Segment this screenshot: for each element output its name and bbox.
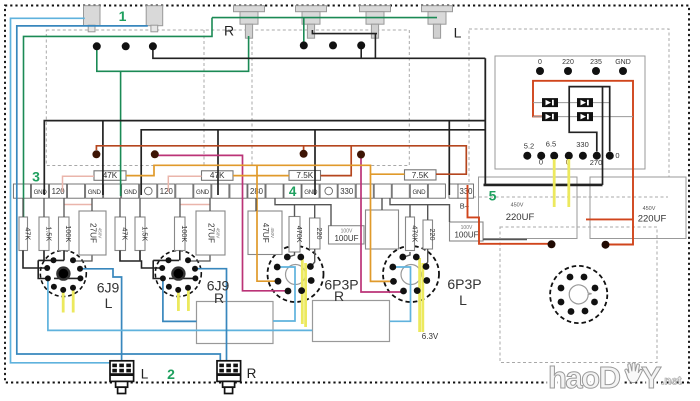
- svg-text:450V: 450V: [270, 228, 275, 239]
- terminal 0: [536, 67, 544, 75]
- svg-text:220: 220: [315, 228, 324, 240]
- wire green R-input to pot lug: [97, 36, 249, 71]
- svg-text:235: 235: [590, 59, 602, 66]
- svg-text:6.5: 6.5: [546, 140, 556, 149]
- PSU dashed box bottom overlay: [479, 196, 668, 198]
- wire blue 6J9R to OPT-R: [163, 279, 197, 321]
- wire yellow heater: [418, 258, 421, 332]
- capacitor 27UF 450V (R): [196, 211, 225, 255]
- svg-text:47UF: 47UF: [261, 223, 270, 243]
- svg-text:100K: 100K: [64, 225, 73, 242]
- chassis lug: [93, 42, 101, 50]
- svg-text:2: 2: [167, 366, 175, 382]
- capacitor C8 220UF box: [590, 177, 686, 239]
- resistor 7.5K (R ch): [289, 171, 321, 181]
- svg-text:470K: 470K: [295, 226, 304, 243]
- wire gray 100UF-L right: [483, 239, 527, 241]
- wire yellow 6.3V a: [553, 159, 556, 207]
- svg-text:450V: 450V: [97, 228, 102, 239]
- svg-text:GND: GND: [196, 189, 210, 196]
- chassis lug: [300, 41, 308, 49]
- output transformer OPT-R box: [197, 302, 274, 344]
- svg-text:27UF: 27UF: [88, 223, 97, 243]
- tube socket 6J9 R base: [155, 251, 201, 297]
- pin: [192, 275, 198, 281]
- lug B+ b: [151, 150, 159, 158]
- speaker terminal R: [217, 361, 241, 382]
- resistor 47K 6J9-L grid: [19, 217, 28, 251]
- wire jack ground drop: [374, 34, 376, 59]
- pin: [413, 254, 420, 261]
- pin: [389, 264, 396, 271]
- svg-text:3: 3: [32, 169, 40, 185]
- svg-text:GND: GND: [304, 189, 318, 196]
- preamp dashed divider 1: [203, 30, 205, 166]
- wire socket jumper 2: [38, 260, 47, 278]
- lug cap C7: [548, 240, 556, 248]
- svg-text:330: 330: [459, 187, 473, 196]
- wire dot ground drop: [360, 47, 362, 58]
- pin: [44, 265, 50, 271]
- pin: [70, 285, 76, 291]
- tube socket 6P3P R base: [268, 246, 324, 302]
- diode D2: [578, 99, 593, 107]
- pin: [297, 254, 304, 261]
- svg-text:120: 120: [160, 187, 174, 196]
- stub: [179, 198, 181, 217]
- wire cyan 6P3P-R to OPT-R: [273, 267, 295, 321]
- wire socket jumper 3: [54, 277, 80, 279]
- wire yellow heater: [187, 289, 190, 311]
- pin: [51, 284, 57, 290]
- wire red cap tap: [586, 218, 633, 220]
- resistor 100K 6J9-R: [175, 217, 186, 251]
- wire yellow 6.3V b: [567, 159, 570, 207]
- terminal lug: [537, 152, 545, 160]
- wire 1.5K stub: [43, 251, 45, 261]
- resistor 220 6P3P-R cathode: [310, 218, 321, 249]
- RCA jack R2: [296, 6, 327, 12]
- svg-text:GND: GND: [88, 189, 102, 196]
- resistor 7.5K (L ch): [405, 170, 437, 180]
- pin: [423, 263, 430, 270]
- tube socket rectifier base: [550, 266, 607, 323]
- rectifier socket key: [569, 285, 591, 304]
- terminal strip tag board: [13, 184, 30, 198]
- pin: [284, 254, 291, 261]
- pin: [275, 278, 282, 285]
- svg-text:L: L: [459, 292, 467, 308]
- pin: [414, 287, 421, 294]
- PSU dashed box: [469, 29, 669, 197]
- resistor 1.5K 6J9-L cathode: [39, 217, 49, 251]
- svg-text:100K: 100K: [180, 225, 189, 242]
- pin: [185, 285, 191, 291]
- pin: [567, 274, 574, 281]
- stub: [209, 198, 211, 211]
- wire socket jumper R1: [153, 259, 179, 261]
- pin: [423, 277, 430, 284]
- tube socket 6J9 L base: [40, 251, 86, 297]
- resistor 47K 6J9-R grid: [115, 217, 126, 251]
- wire ground down to PSU: [484, 58, 486, 184]
- wire yellow heater: [177, 291, 180, 311]
- power transformer T1 box: [495, 56, 645, 169]
- svg-text:5: 5: [489, 188, 497, 204]
- lug B+ d: [357, 151, 365, 159]
- wire socket jumper R2: [153, 260, 162, 278]
- wire gray strip to 100UF L: [390, 198, 450, 222]
- svg-text:220: 220: [562, 59, 574, 66]
- center spigot 6J9 R: [171, 266, 185, 280]
- pin: [60, 287, 66, 293]
- pin: [192, 266, 198, 272]
- wire rail2 drop GND: [314, 130, 316, 195]
- wire green to 47K grid L: [24, 18, 213, 217]
- socket key 6P3P L: [401, 265, 421, 285]
- wire yellow heater: [72, 289, 75, 313]
- stub: [22, 198, 24, 217]
- pin: [159, 265, 165, 271]
- wire gray 470K top L: [409, 205, 411, 217]
- wire salmon strip to 47K-b: [168, 176, 201, 192]
- terminal 235: [592, 67, 600, 75]
- terminal lug: [523, 152, 531, 160]
- watermark haoDIY.net: [548, 360, 682, 395]
- pin: [592, 285, 599, 292]
- wire rail1 drop GND: [102, 121, 104, 195]
- terminal lug: [550, 152, 558, 160]
- wire jack R2-L1 ground tie: [312, 30, 377, 34]
- svg-text:47K: 47K: [24, 227, 33, 240]
- svg-text:47K: 47K: [121, 227, 130, 240]
- loose lug cell: [449, 184, 458, 198]
- terminal lug: [593, 152, 601, 160]
- rectifier dashed box overlay: [500, 227, 657, 363]
- output transformer OPT-L box: [313, 301, 390, 342]
- wire 470K to pin L: [404, 252, 410, 257]
- resistor 1.5K 6J9-R cathode: [135, 217, 145, 251]
- watermark hand icon: [625, 363, 642, 383]
- svg-text:330: 330: [340, 187, 354, 196]
- wire amber to 6P3P-R: [257, 165, 277, 281]
- svg-text:.net: .net: [661, 376, 682, 388]
- wire 27UF stub: [74, 256, 93, 262]
- chassis lug: [329, 41, 337, 49]
- wire rail1 drop lug: [448, 121, 450, 195]
- wire rectifier output: [569, 87, 610, 152]
- wire magenta grid R: [155, 155, 287, 290]
- wire rectifier to 270: [569, 103, 597, 152]
- strip eyelet cell 8: [145, 187, 153, 195]
- svg-text:330: 330: [576, 140, 589, 149]
- RCA jack L1: [360, 6, 391, 12]
- wire salmon strip to 47K-a: [63, 176, 95, 192]
- capacitor C7 220UF box: [479, 177, 578, 239]
- wire diode row2: [533, 116, 633, 118]
- svg-text:100UF: 100UF: [334, 234, 358, 243]
- wire yellow heater: [62, 291, 65, 313]
- pin: [308, 277, 315, 284]
- svg-text:1.5K: 1.5K: [140, 226, 149, 241]
- resistor 220 6P3P-L cathode: [423, 220, 433, 249]
- capacitor 100UF 100V (R): [329, 226, 365, 244]
- wire 100K stub: [63, 251, 65, 261]
- pin: [45, 275, 51, 281]
- volume pot lug block B: [146, 6, 163, 26]
- pin: [285, 288, 292, 295]
- volume pot lug block A: [84, 6, 101, 26]
- svg-text:L: L: [105, 295, 113, 311]
- wire gray strip to 100UF R: [275, 198, 331, 226]
- capacitor 27UF 450V (L): [79, 211, 106, 255]
- svg-text:470K: 470K: [410, 225, 419, 242]
- wire 27UF stub R: [189, 256, 211, 262]
- wire cyan cathode bus: [48, 279, 312, 330]
- capacitor 47UF 450V (L) unlabeled: [366, 210, 399, 249]
- svg-text:27UF: 27UF: [206, 223, 215, 243]
- pin: [558, 299, 565, 306]
- pin: [298, 287, 305, 294]
- pin: [274, 264, 281, 271]
- pin: [70, 257, 76, 263]
- diode D4: [578, 113, 593, 121]
- svg-text:270: 270: [590, 158, 603, 167]
- pin: [400, 288, 407, 295]
- wire 47UF top stub L: [381, 198, 383, 210]
- wire ground rail 1: [44, 121, 485, 195]
- svg-text:R: R: [214, 290, 224, 306]
- wire red transformer to rectifier: [533, 81, 633, 245]
- wire green jack R2 stub: [303, 18, 305, 43]
- socket key 6P3P R: [286, 265, 306, 285]
- stub: [139, 198, 141, 217]
- wire PSU ground drop: [602, 87, 604, 185]
- terminal lug: [579, 152, 587, 160]
- resistor 470K 6P3P-R grid: [289, 217, 300, 253]
- svg-text:L: L: [454, 25, 462, 41]
- pin: [160, 275, 166, 281]
- wire 47K to pin: [23, 251, 46, 269]
- pin: [51, 257, 57, 263]
- resistor 470K 6P3P-L grid: [406, 217, 415, 251]
- wire brick stub: [303, 146, 305, 150]
- svg-text:0: 0: [539, 158, 543, 167]
- wire amber 47K to 7.5K: [233, 175, 289, 177]
- wire 47UF top stub R: [255, 198, 257, 211]
- stub: [91, 198, 93, 211]
- svg-text:7.5K: 7.5K: [296, 171, 313, 180]
- wire cyan 6P3P-L to OPT-L: [390, 267, 411, 321]
- terminal GND: [619, 67, 627, 75]
- svg-text:1.5K: 1.5K: [44, 226, 53, 241]
- wire salmon 100K-27UF R: [180, 204, 210, 206]
- svg-text:220UF: 220UF: [638, 214, 667, 225]
- wire diode row1: [533, 102, 610, 104]
- capacitor 100UF 100V (L): [450, 222, 484, 241]
- resistor 47K (L ch plate): [202, 171, 234, 181]
- svg-text:100UF: 100UF: [454, 231, 478, 240]
- wire magenta grid L: [361, 155, 402, 292]
- svg-text:6.3V: 6.3V: [422, 332, 439, 341]
- svg-text:1: 1: [119, 8, 127, 24]
- resistor 100K 6J9-L: [59, 217, 70, 251]
- svg-text:0: 0: [538, 59, 542, 66]
- wire 1.5K stub R: [139, 251, 141, 261]
- svg-text:6J9: 6J9: [97, 280, 120, 296]
- svg-text:GND: GND: [34, 189, 48, 196]
- svg-text:haoD: haoD: [548, 360, 621, 395]
- wire gray 470K top R: [294, 205, 296, 217]
- loose lug cell 330: [458, 184, 474, 198]
- pin: [77, 275, 83, 281]
- stub: [119, 198, 121, 217]
- wire socket jumper R3: [169, 277, 195, 279]
- resistor 47K (R ch plate): [94, 171, 126, 181]
- pin: [390, 278, 397, 285]
- wire yellow heater: [304, 263, 307, 327]
- lug B+ c: [300, 150, 308, 158]
- diode D1: [543, 99, 558, 107]
- wire gray 220 top R: [314, 205, 316, 218]
- terminal lug: [565, 152, 573, 160]
- wire gray 220 top L: [427, 205, 429, 220]
- svg-text:450V: 450V: [215, 228, 220, 239]
- svg-text:Y: Y: [641, 360, 662, 395]
- capacitor 47UF 450V (R): [248, 211, 282, 255]
- pin: [77, 266, 83, 272]
- lug cap C8: [602, 241, 610, 249]
- wire yellow heater: [421, 263, 424, 332]
- pin: [558, 285, 565, 292]
- wire amber screen rail: [126, 165, 405, 175]
- wire socket jumper: [38, 259, 64, 261]
- rectifier dashed box: [500, 227, 657, 363]
- stub: [63, 198, 65, 217]
- svg-text:6P3P: 6P3P: [447, 276, 481, 292]
- wire amber to 6P3P-L: [371, 174, 393, 281]
- pin: [581, 274, 588, 281]
- wire red B+ to filter caps: [468, 185, 551, 244]
- RCA jack R1: [234, 6, 265, 12]
- terminal lug: [606, 152, 614, 160]
- speaker terminal L: [110, 361, 134, 382]
- wire blue 6J9L to speaker L: [80, 269, 122, 361]
- svg-text:GND: GND: [412, 189, 426, 196]
- svg-text:450V: 450V: [511, 203, 524, 209]
- wire yellow heater: [301, 258, 304, 324]
- svg-text:0: 0: [615, 151, 619, 160]
- svg-text:5.2: 5.2: [524, 142, 534, 151]
- pin: [591, 299, 598, 306]
- wire brick to 7.5K-R: [321, 146, 352, 176]
- svg-text:R: R: [247, 366, 257, 381]
- stub: [43, 198, 45, 217]
- pin: [307, 263, 314, 270]
- strip eyelet cell 18: [325, 187, 333, 195]
- svg-text:47K: 47K: [103, 171, 118, 180]
- svg-text:L: L: [141, 367, 149, 382]
- diode D3: [543, 113, 558, 121]
- svg-text:7.5K: 7.5K: [412, 171, 429, 180]
- wire green L-input bus: [212, 17, 437, 19]
- svg-text:GND: GND: [124, 189, 138, 196]
- wire ground rail 2: [141, 130, 485, 195]
- pin: [568, 308, 575, 315]
- chassis lug: [122, 42, 130, 50]
- lug B+ a: [92, 150, 100, 158]
- wire thick ground bus to PSU: [484, 184, 603, 187]
- svg-text:220: 220: [428, 229, 437, 241]
- wire 470K to pin: [289, 252, 295, 257]
- pin: [582, 308, 589, 315]
- wire green to strip: [120, 71, 122, 196]
- wire light-blue pot to speaker L: [11, 18, 111, 363]
- RCA jack L2: [422, 6, 453, 12]
- tube socket 6P3P L base: [383, 246, 439, 302]
- svg-text:4: 4: [289, 184, 297, 199]
- wire 47K to pin R: [120, 251, 161, 269]
- pin: [166, 284, 172, 290]
- pin: [166, 257, 172, 263]
- chassis lug: [149, 42, 157, 50]
- wire 220 to pin L: [425, 249, 428, 267]
- wire ground bus jacks: [153, 48, 485, 58]
- wire salmon 100K-27UF L: [64, 204, 92, 206]
- preamp dashed divider 2: [251, 30, 253, 166]
- wire blue pot to speaker R: [17, 26, 221, 361]
- pin: [399, 254, 406, 261]
- preamp dashed box: [46, 30, 409, 166]
- svg-text:450V: 450V: [643, 206, 656, 212]
- pin: [185, 257, 191, 263]
- wire 100K stub R: [179, 251, 181, 261]
- svg-text:GND: GND: [615, 59, 631, 66]
- svg-text:R: R: [334, 288, 344, 304]
- wire B+ brick rail: [96, 146, 466, 174]
- svg-text:R: R: [224, 23, 234, 39]
- wire blue 6J9R to speaker R: [195, 269, 227, 361]
- wire rail2 drop: [217, 130, 219, 195]
- svg-text:220UF: 220UF: [506, 212, 535, 223]
- chassis lug: [357, 41, 365, 49]
- wire 220 to pin: [311, 249, 315, 267]
- pin: [175, 287, 181, 293]
- terminal 220: [564, 67, 572, 75]
- center spigot 6J9 L: [56, 266, 70, 280]
